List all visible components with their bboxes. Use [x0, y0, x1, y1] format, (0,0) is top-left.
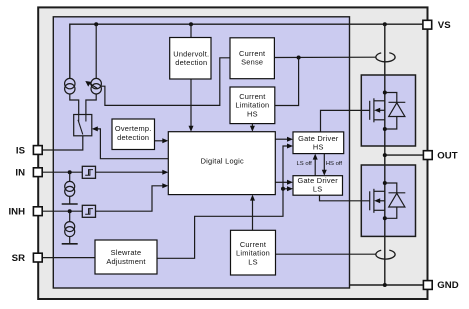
svg-text:HS off: HS off — [326, 161, 343, 167]
box HS DMOS cell — [361, 75, 415, 146]
wire half-bridge vertical — [384, 24, 386, 285]
ground GND1 — [62, 196, 78, 204]
schmitt trigger ST2 — [82, 205, 95, 217]
ground GND2 — [62, 237, 78, 244]
block Digital Logic — [168, 132, 275, 195]
pin IN — [15, 168, 42, 179]
pin OUT — [423, 150, 457, 161]
node T2 source — [383, 216, 387, 220]
current source I1 — [65, 78, 75, 94]
wire CLHS sense — [275, 58, 299, 106]
wire OUT — [385, 154, 423, 156]
svg-text:SR: SR — [12, 253, 25, 264]
svg-text:Limitation: Limitation — [235, 101, 269, 110]
wire slewrate to gate drivers — [157, 146, 290, 258]
svg-text:INH: INH — [8, 207, 25, 218]
wire CLHS to DL — [251, 124, 253, 129]
wire UV to DL — [190, 79, 192, 128]
switch S1 — [74, 115, 92, 136]
package outline — [38, 7, 427, 299]
svg-text:Slewrate: Slewrate — [111, 248, 142, 257]
svg-text:Current: Current — [239, 49, 265, 58]
node T1 drain — [383, 91, 387, 95]
wire INH — [43, 186, 165, 211]
pin INH — [8, 207, 42, 218]
wire UV in — [190, 24, 192, 37]
svg-text:Gate Driver: Gate Driver — [297, 176, 338, 185]
node bus-cs2 — [94, 22, 98, 26]
wire IN — [43, 171, 165, 173]
svg-text:LS: LS — [248, 258, 258, 267]
transistor T2 — [370, 189, 385, 213]
pin IS — [16, 145, 42, 156]
block Gate Driver LS — [293, 176, 343, 196]
pin SR — [12, 253, 43, 264]
svg-text:Adjustment: Adjustment — [106, 257, 145, 266]
wire IS — [43, 136, 83, 150]
block Overtemp detection — [112, 119, 155, 150]
wire I2 to switch — [86, 94, 96, 115]
node bus-uv — [189, 22, 193, 26]
wire CS to tab — [274, 56, 376, 58]
current source I4 — [65, 211, 75, 236]
svg-text:IN: IN — [15, 168, 25, 179]
wire CLLS to DL — [252, 198, 254, 230]
svg-text:Overtemp.: Overtemp. — [115, 124, 152, 133]
block Gate Driver HS — [293, 132, 344, 154]
current source I3 — [65, 172, 75, 196]
svg-text:HS: HS — [313, 143, 324, 152]
wire switch control — [94, 129, 169, 159]
diode D1 — [385, 93, 406, 130]
wire SR — [43, 257, 95, 259]
chip body — [53, 17, 349, 288]
svg-text:Sense: Sense — [241, 58, 263, 67]
svg-text:LS: LS — [313, 185, 323, 194]
svg-text:HS: HS — [247, 109, 258, 118]
svg-text:detection: detection — [117, 133, 149, 142]
svg-text:detection: detection — [175, 58, 207, 67]
svg-text:Limitation: Limitation — [236, 249, 270, 258]
current source I2 — [91, 78, 101, 94]
arrow I2 adjust — [85, 81, 97, 89]
node GND — [383, 283, 387, 287]
svg-text:Current: Current — [239, 92, 265, 101]
wire slew to GDLS — [283, 188, 290, 190]
bond wire L1 — [376, 53, 395, 62]
node IN — [68, 170, 72, 174]
wire GDLS to LS gate — [320, 195, 370, 201]
wire GDHS to HS gate — [321, 110, 370, 131]
wire LS off — [314, 157, 316, 176]
wire VS top bus — [70, 24, 423, 78]
transistor T1 — [370, 98, 385, 122]
schmitt trigger ST1 — [82, 166, 95, 178]
svg-text:Undervolt.: Undervolt. — [173, 49, 209, 58]
bond wire L2 — [376, 250, 395, 259]
node slew-gdls — [281, 187, 285, 191]
wire CS2 down — [95, 24, 97, 78]
svg-text:GND: GND — [437, 280, 458, 291]
pin GND — [423, 280, 458, 291]
node T1 source — [383, 127, 387, 131]
block Current Sense — [230, 38, 274, 79]
wire I2 to current sense — [101, 58, 230, 106]
wire DL to GDLS — [275, 181, 290, 183]
block Undervoltage detection — [170, 38, 211, 80]
svg-text:Gate Driver: Gate Driver — [298, 134, 339, 143]
diode D2 — [385, 183, 406, 218]
svg-text:OUT: OUT — [437, 150, 457, 161]
block Current Limitation HS — [230, 87, 275, 124]
wire DL to GDHS — [275, 138, 290, 140]
wire CLLS to source tab — [276, 253, 377, 255]
pin VS — [423, 20, 451, 31]
wire HS off — [323, 154, 325, 173]
node bus-hb — [383, 22, 387, 26]
wire GND bus — [350, 284, 423, 286]
block Current Limitation LS — [231, 230, 276, 275]
node CS out — [297, 56, 301, 60]
wire OT to DL — [155, 140, 166, 142]
node T2 drain — [383, 181, 387, 185]
node INH — [68, 209, 72, 213]
svg-text:VS: VS — [438, 20, 451, 31]
svg-text:IS: IS — [16, 145, 26, 156]
svg-text:Digital Logic: Digital Logic — [201, 156, 244, 165]
svg-text:Current: Current — [240, 240, 266, 249]
svg-text:LS off: LS off — [297, 161, 313, 167]
node OUT — [383, 153, 387, 157]
wire I1 to switch — [70, 94, 79, 115]
block Slewrate Adjustment — [95, 240, 157, 274]
box LS DMOS cell — [361, 165, 415, 236]
